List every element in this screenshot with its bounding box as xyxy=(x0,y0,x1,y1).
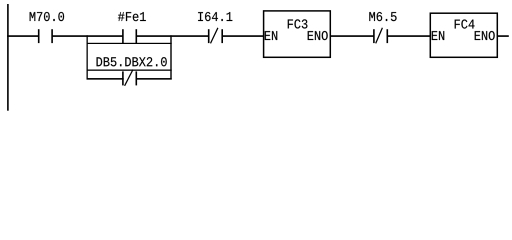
FC4 box xyxy=(430,13,497,57)
wire contact I64.1 to FC3 box xyxy=(222,35,263,37)
contact DB5.DBX2.0 NC slash xyxy=(125,70,133,86)
contact M6.5 right bar xyxy=(387,29,389,43)
label ENO of FC3 xyxy=(308,31,328,40)
label M6.5 xyxy=(369,12,396,21)
contact #Fe1 left bar xyxy=(122,29,124,43)
label FC3 xyxy=(288,19,308,28)
label EN of FC3 xyxy=(265,31,277,40)
FC3 box xyxy=(264,11,331,57)
label #Fe1 xyxy=(118,12,146,21)
output wire stub from FC4 ENO xyxy=(497,35,509,37)
contact #Fe1 right bar xyxy=(136,29,138,43)
label I64.1 xyxy=(198,12,232,21)
branch left vertical xyxy=(87,35,88,79)
label FC4 xyxy=(455,19,475,28)
branch right vertical xyxy=(170,35,171,79)
contact M70.0 left bar xyxy=(38,29,40,43)
operand name box bottom edge xyxy=(87,70,172,71)
label ENO of FC4 xyxy=(475,31,495,40)
contact M6.5 NC slash xyxy=(376,28,383,44)
branch wire right segment xyxy=(136,78,172,80)
wire contact M70.0 to contact #Fe1 xyxy=(52,35,123,37)
label EN of FC4 xyxy=(432,31,444,40)
branch wire left segment xyxy=(87,78,124,80)
contact DB5.DBX2.0 right bar xyxy=(136,71,138,85)
contact I64.1 left bar xyxy=(208,29,210,43)
wire FC3 ENO to contact M6.5 xyxy=(330,35,374,37)
contact DB5.DBX2.0 left bar xyxy=(122,71,124,85)
operand name box top edge xyxy=(87,43,172,44)
contact I64.1 right bar xyxy=(221,29,223,43)
contact I64.1 NC slash xyxy=(211,28,218,44)
wire rail to contact M70.0 xyxy=(7,35,39,37)
power rail xyxy=(7,4,9,111)
contact M70.0 right bar xyxy=(51,29,53,43)
contact M6.5 left bar xyxy=(373,29,375,43)
wire contact #Fe1 to contact I64.1 xyxy=(136,35,208,37)
wire contact M6.5 to FC4 box xyxy=(387,35,430,37)
label M70.0 xyxy=(30,12,64,21)
label DB5.DBX2.0 xyxy=(97,57,167,66)
